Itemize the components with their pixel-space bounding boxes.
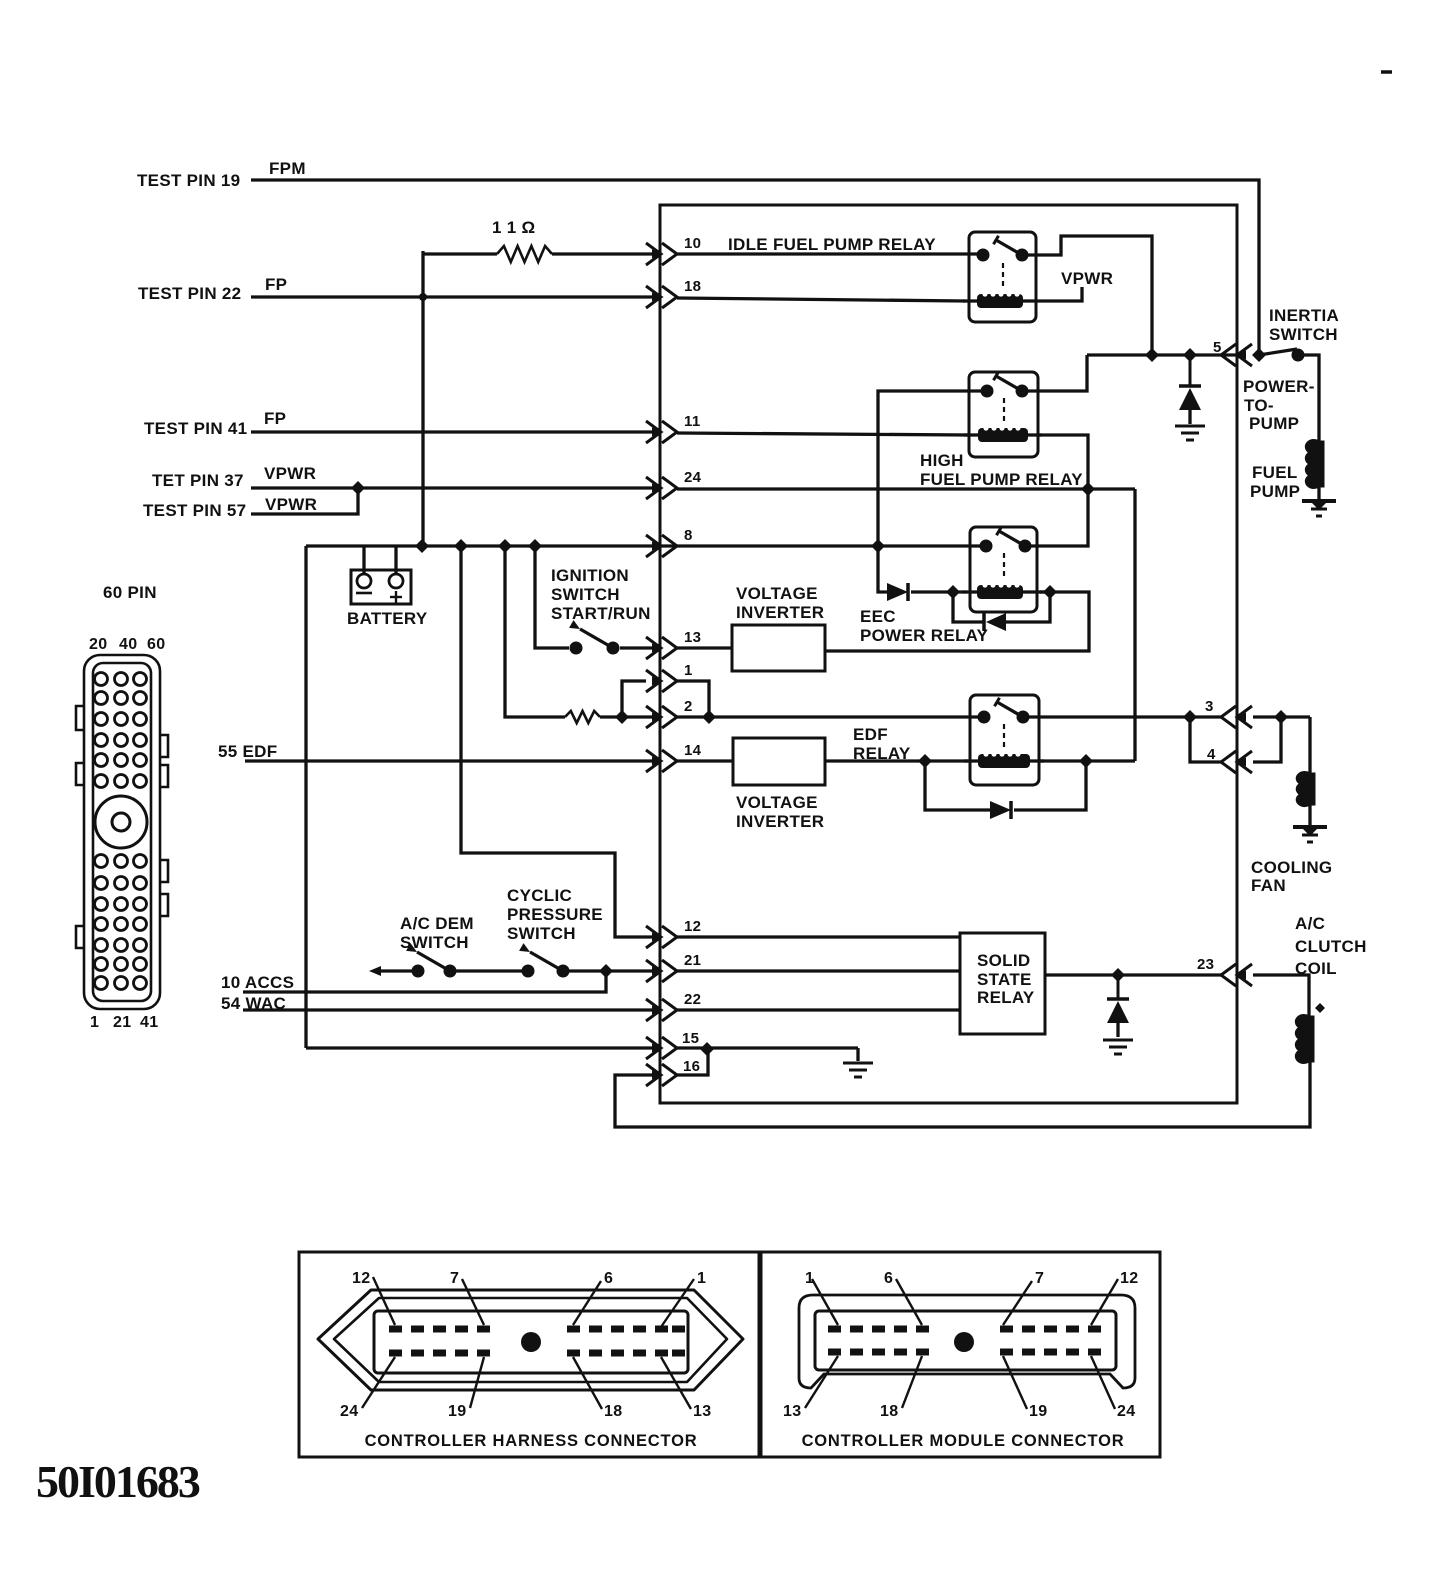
svg-text:VPWR: VPWR xyxy=(264,464,316,483)
svg-text:INVERTER: INVERTER xyxy=(736,603,824,622)
svg-text:1: 1 xyxy=(697,1270,706,1287)
svg-text:10: 10 xyxy=(684,235,701,252)
svg-text:13: 13 xyxy=(783,1403,801,1420)
svg-text:12: 12 xyxy=(684,918,701,935)
svg-text:7: 7 xyxy=(450,1270,459,1287)
svg-text:6: 6 xyxy=(604,1270,613,1287)
svg-text:23: 23 xyxy=(1197,956,1214,973)
svg-text:1 1 Ω: 1 1 Ω xyxy=(492,218,536,237)
svg-text:TET PIN 37: TET PIN 37 xyxy=(152,471,244,490)
svg-text:VOLTAGE: VOLTAGE xyxy=(736,584,818,603)
svg-text:18: 18 xyxy=(604,1403,622,1420)
svg-text:CONTROLLER HARNESS CONNECTOR: CONTROLLER HARNESS CONNECTOR xyxy=(365,1432,698,1450)
svg-text:1: 1 xyxy=(90,1014,99,1031)
svg-text:18: 18 xyxy=(684,278,701,295)
svg-text:BATTERY: BATTERY xyxy=(347,609,428,628)
svg-text:SWITCH: SWITCH xyxy=(507,924,576,943)
svg-text:60 PIN: 60 PIN xyxy=(103,583,157,602)
svg-text:START/RUN: START/RUN xyxy=(551,604,651,623)
svg-text:CLUTCH: CLUTCH xyxy=(1295,937,1367,956)
svg-text:24: 24 xyxy=(340,1403,358,1420)
svg-text:SWITCH: SWITCH xyxy=(551,585,620,604)
svg-text:POWER RELAY: POWER RELAY xyxy=(860,626,989,645)
svg-text:EDF: EDF xyxy=(853,725,888,744)
svg-text:SWITCH: SWITCH xyxy=(1269,325,1338,344)
svg-text:21: 21 xyxy=(684,952,701,969)
svg-text:FPM: FPM xyxy=(269,159,306,178)
svg-text:VPWR: VPWR xyxy=(1061,269,1113,288)
svg-text:19: 19 xyxy=(448,1403,466,1420)
svg-text:FAN: FAN xyxy=(1251,876,1286,895)
svg-text:40: 40 xyxy=(119,636,137,653)
svg-text:VOLTAGE: VOLTAGE xyxy=(736,793,818,812)
svg-text:TO-: TO- xyxy=(1244,396,1274,415)
svg-text:24: 24 xyxy=(684,469,702,486)
svg-text:13: 13 xyxy=(684,629,701,646)
svg-text:SOLID: SOLID xyxy=(977,951,1030,970)
svg-text:INVERTER: INVERTER xyxy=(736,812,824,831)
svg-text:FUEL PUMP RELAY: FUEL PUMP RELAY xyxy=(920,470,1083,489)
svg-text:1: 1 xyxy=(684,662,693,679)
svg-text:TEST PIN 41: TEST PIN 41 xyxy=(144,419,247,438)
svg-text:12: 12 xyxy=(352,1270,370,1287)
svg-text:50I01683: 50I01683 xyxy=(36,1456,200,1507)
svg-text:11: 11 xyxy=(684,413,700,430)
svg-text:13: 13 xyxy=(693,1403,711,1420)
svg-text:A/C DEM: A/C DEM xyxy=(400,914,474,933)
svg-text:PUMP: PUMP xyxy=(1250,482,1300,501)
svg-text:VPWR: VPWR xyxy=(265,495,317,514)
svg-text:INERTIA: INERTIA xyxy=(1269,306,1339,325)
svg-text:21: 21 xyxy=(113,1014,131,1031)
svg-text:TEST PIN 19: TEST PIN 19 xyxy=(137,171,240,190)
svg-text:COOLING: COOLING xyxy=(1251,858,1332,877)
svg-text:24: 24 xyxy=(1117,1403,1135,1420)
svg-text:FP: FP xyxy=(264,409,286,428)
svg-text:POWER-: POWER- xyxy=(1243,377,1315,396)
svg-text:15: 15 xyxy=(682,1030,699,1047)
svg-text:CONTROLLER MODULE CONNECTOR: CONTROLLER MODULE CONNECTOR xyxy=(802,1432,1125,1450)
svg-text:18: 18 xyxy=(880,1403,898,1420)
svg-text:TEST PIN 57: TEST PIN 57 xyxy=(143,501,246,520)
svg-text:TEST PIN 22: TEST PIN 22 xyxy=(138,284,241,303)
svg-text:2: 2 xyxy=(684,698,693,715)
svg-text:6: 6 xyxy=(884,1270,893,1287)
svg-text:STATE: STATE xyxy=(977,970,1032,989)
svg-text:PUMP: PUMP xyxy=(1249,414,1299,433)
svg-text:12: 12 xyxy=(1120,1270,1138,1287)
svg-text:7: 7 xyxy=(1035,1270,1044,1287)
svg-text:FP: FP xyxy=(265,275,287,294)
svg-text:19: 19 xyxy=(1029,1403,1047,1420)
svg-text:RELAY: RELAY xyxy=(977,988,1035,1007)
svg-text:IDLE FUEL PUMP RELAY: IDLE FUEL PUMP RELAY xyxy=(728,235,936,254)
svg-text:16: 16 xyxy=(683,1058,700,1075)
svg-text:PRESSURE: PRESSURE xyxy=(507,905,603,924)
svg-text:4: 4 xyxy=(1207,746,1216,763)
svg-text:5: 5 xyxy=(1213,339,1222,356)
svg-text:HIGH: HIGH xyxy=(920,451,964,470)
svg-text:10 ACCS: 10 ACCS xyxy=(221,973,294,992)
svg-text:FUEL: FUEL xyxy=(1252,463,1298,482)
svg-text:20: 20 xyxy=(89,636,107,653)
svg-text:54 WAC: 54 WAC xyxy=(221,994,286,1013)
svg-text:8: 8 xyxy=(684,527,693,544)
svg-text:IGNITION: IGNITION xyxy=(551,566,629,585)
svg-text:RELAY: RELAY xyxy=(853,744,911,763)
svg-text:COIL: COIL xyxy=(1295,959,1337,978)
svg-text:60: 60 xyxy=(147,636,165,653)
svg-text:A/C: A/C xyxy=(1295,914,1325,933)
svg-text:1: 1 xyxy=(805,1270,814,1287)
svg-text:14: 14 xyxy=(684,742,702,759)
svg-text:22: 22 xyxy=(684,991,701,1008)
svg-text:55 EDF: 55 EDF xyxy=(218,742,277,761)
svg-text:41: 41 xyxy=(140,1014,158,1031)
svg-text:SWITCH: SWITCH xyxy=(400,933,469,952)
svg-text:CYCLIC: CYCLIC xyxy=(507,886,572,905)
svg-text:3: 3 xyxy=(1205,698,1214,715)
svg-text:EEC: EEC xyxy=(860,607,896,626)
